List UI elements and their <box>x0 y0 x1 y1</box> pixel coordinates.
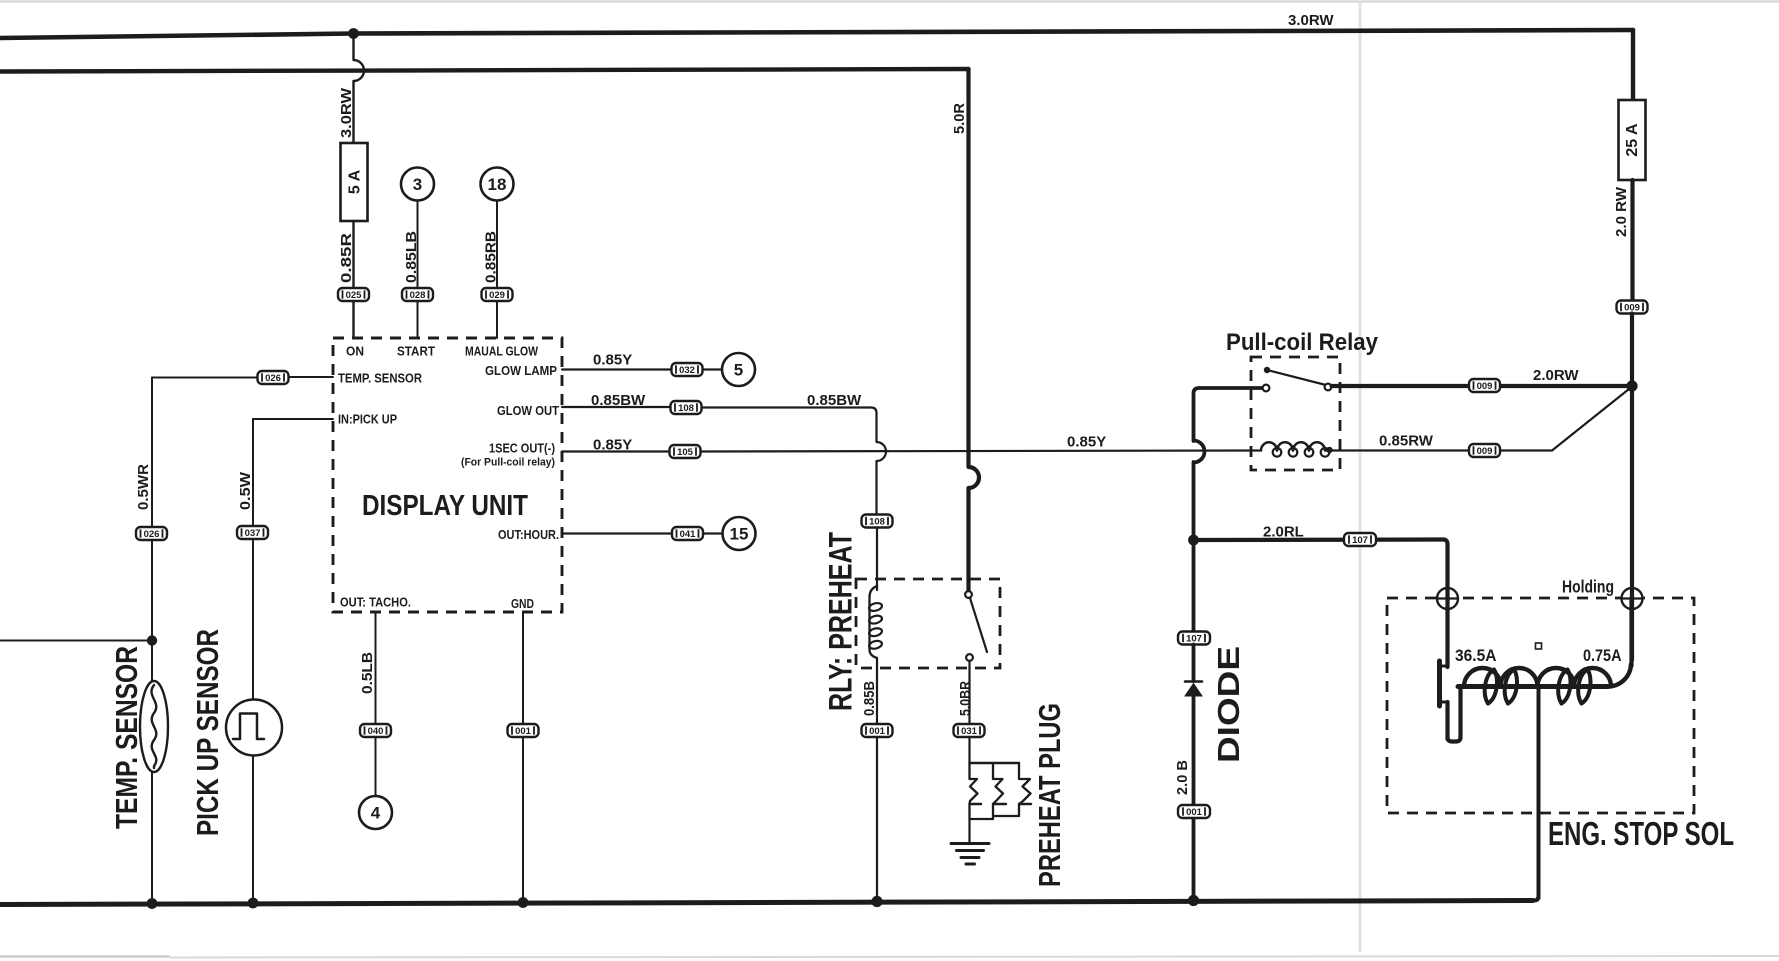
svg-text:041: 041 <box>680 529 697 540</box>
svg-text:START: START <box>397 345 435 359</box>
svg-text:1SEC OUT(-): 1SEC OUT(-) <box>489 441 555 456</box>
svg-text:0.5WR: 0.5WR <box>135 464 152 510</box>
svg-text:TEMP. SENSOR: TEMP. SENSOR <box>109 646 144 829</box>
svg-text:009: 009 <box>1477 381 1493 392</box>
svg-text:GLOW LAMP: GLOW LAMP <box>485 363 557 378</box>
svg-text:18: 18 <box>488 175 507 194</box>
svg-text:031: 031 <box>961 726 978 737</box>
svg-text:032: 032 <box>679 365 695 376</box>
svg-text:TEMP. SENSOR: TEMP. SENSOR <box>338 371 423 386</box>
svg-text:029: 029 <box>489 290 505 301</box>
svg-text:OUT: TACHO.: OUT: TACHO. <box>340 595 411 610</box>
svg-text:DIODE: DIODE <box>1211 646 1246 763</box>
svg-text:105: 105 <box>677 447 694 458</box>
svg-text:RLY: PREHEAT: RLY: PREHEAT <box>823 532 859 711</box>
svg-text:IN:PICK UP: IN:PICK UP <box>338 412 397 427</box>
svg-text:0.5W: 0.5W <box>237 471 254 510</box>
svg-text:36.5A: 36.5A <box>1455 646 1497 665</box>
svg-text:5.0R: 5.0R <box>951 103 968 134</box>
svg-text:PREHEAT PLUG: PREHEAT PLUG <box>1032 703 1067 887</box>
svg-text:0.85B: 0.85B <box>861 681 878 716</box>
svg-text:108: 108 <box>869 516 885 527</box>
svg-text:5 A: 5 A <box>347 169 364 194</box>
svg-text:3: 3 <box>413 175 422 194</box>
svg-text:037: 037 <box>245 528 261 539</box>
svg-text:PICK UP SENSOR: PICK UP SENSOR <box>190 629 225 836</box>
svg-text:5.0BR: 5.0BR <box>957 681 974 716</box>
svg-text:5: 5 <box>734 361 743 380</box>
svg-text:ON: ON <box>346 345 364 359</box>
svg-text:0.85RW: 0.85RW <box>1379 433 1434 450</box>
svg-text:0.85RB: 0.85RB <box>483 231 500 283</box>
svg-text:15: 15 <box>730 525 749 544</box>
svg-text:028: 028 <box>410 290 426 301</box>
svg-text:3.0RW: 3.0RW <box>1288 12 1334 29</box>
svg-text:0.85BW: 0.85BW <box>591 392 646 409</box>
svg-text:026: 026 <box>265 373 281 384</box>
svg-text:040: 040 <box>368 726 384 737</box>
svg-text:3.0RW: 3.0RW <box>338 87 355 138</box>
svg-text:DISPLAY UNIT: DISPLAY UNIT <box>362 490 528 522</box>
svg-text:009: 009 <box>1477 446 1493 457</box>
svg-text:001: 001 <box>869 726 886 737</box>
svg-text:026: 026 <box>144 529 160 540</box>
svg-text:2.0 B: 2.0 B <box>1174 760 1191 795</box>
svg-text:2.0 RW: 2.0 RW <box>1613 186 1630 237</box>
svg-text:0.5LB: 0.5LB <box>359 652 376 694</box>
svg-text:0.85Y: 0.85Y <box>1067 434 1106 451</box>
svg-text:(For Pull-coil relay): (For Pull-coil relay) <box>461 457 555 469</box>
svg-text:25 A: 25 A <box>1624 123 1641 157</box>
svg-text:108: 108 <box>678 403 694 414</box>
svg-text:Pull-coil Relay: Pull-coil Relay <box>1226 329 1379 356</box>
svg-text:2.0RL: 2.0RL <box>1263 524 1304 541</box>
svg-text:0.85LB: 0.85LB <box>403 231 420 283</box>
svg-text:GLOW OUT: GLOW OUT <box>497 403 559 418</box>
svg-text:2.0RW: 2.0RW <box>1533 367 1579 384</box>
svg-text:025: 025 <box>346 290 363 301</box>
svg-text:Holding: Holding <box>1562 577 1614 597</box>
svg-text:0.75A: 0.75A <box>1583 646 1622 665</box>
svg-text:MAUAL GLOW: MAUAL GLOW <box>465 345 538 359</box>
svg-text:0.85BW: 0.85BW <box>807 392 862 409</box>
svg-text:0.85R: 0.85R <box>338 233 355 283</box>
svg-text:001: 001 <box>1186 807 1203 818</box>
svg-text:ENG. STOP SOL: ENG. STOP SOL <box>1548 815 1734 852</box>
svg-text:107: 107 <box>1352 535 1368 546</box>
svg-text:0.85Y: 0.85Y <box>593 437 632 454</box>
svg-text:0.85Y: 0.85Y <box>593 352 632 369</box>
svg-text:GND: GND <box>511 596 534 611</box>
svg-text:4: 4 <box>371 804 381 823</box>
svg-text:001: 001 <box>515 726 532 737</box>
svg-text:OUT:HOUR.: OUT:HOUR. <box>498 527 559 542</box>
